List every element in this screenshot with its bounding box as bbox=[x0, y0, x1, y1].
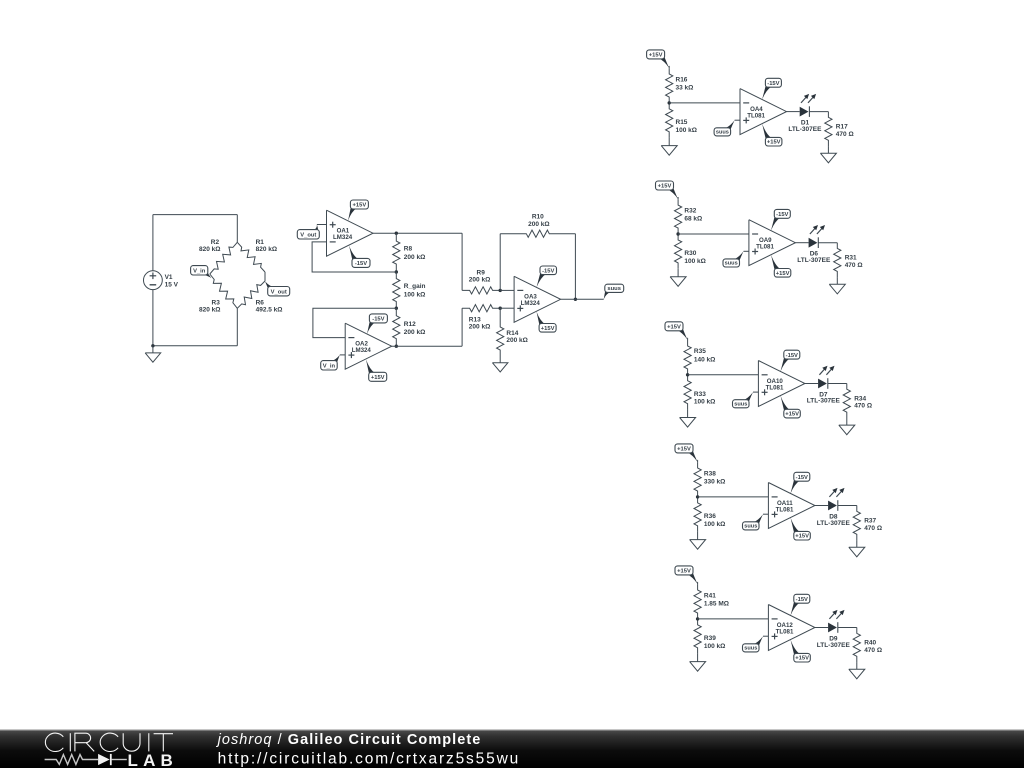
svg-text:LTL-307EE: LTL-307EE bbox=[788, 126, 822, 133]
svg-text:suus: suus bbox=[744, 646, 757, 652]
svg-text:R15: R15 bbox=[676, 119, 688, 126]
svg-text:15 V: 15 V bbox=[165, 282, 179, 289]
svg-text:R34: R34 bbox=[854, 395, 866, 402]
svg-text:-15V: -15V bbox=[355, 261, 367, 267]
svg-text:R14: R14 bbox=[506, 330, 518, 337]
svg-text:+15V: +15V bbox=[667, 325, 681, 331]
svg-text:200 kΩ: 200 kΩ bbox=[469, 276, 490, 283]
svg-text:100 kΩ: 100 kΩ bbox=[676, 127, 697, 134]
svg-text:TL081: TL081 bbox=[756, 244, 774, 251]
svg-text:820 kΩ: 820 kΩ bbox=[199, 246, 220, 253]
svg-text:R31: R31 bbox=[845, 255, 857, 262]
svg-text:33 kΩ: 33 kΩ bbox=[676, 84, 694, 91]
svg-text:R16: R16 bbox=[676, 76, 688, 83]
svg-text:200 kΩ: 200 kΩ bbox=[469, 323, 490, 330]
svg-text:100 kΩ: 100 kΩ bbox=[704, 643, 725, 650]
svg-text:TL081: TL081 bbox=[766, 384, 784, 391]
svg-text:LTL-307EE: LTL-307EE bbox=[807, 398, 841, 405]
svg-text:68 kΩ: 68 kΩ bbox=[684, 216, 702, 223]
svg-text:http://circuitlab.com/crtxarz5: http://circuitlab.com/crtxarz5s55wu bbox=[218, 750, 521, 767]
svg-text:+15V: +15V bbox=[353, 203, 367, 209]
svg-text:LTL-307EE: LTL-307EE bbox=[817, 642, 851, 649]
svg-text:820 kΩ: 820 kΩ bbox=[199, 307, 220, 314]
svg-text:suus: suus bbox=[716, 130, 729, 136]
svg-text:TL081: TL081 bbox=[747, 113, 765, 120]
svg-text:V_in: V_in bbox=[323, 364, 336, 370]
svg-text:R33: R33 bbox=[694, 391, 706, 398]
svg-text:R41: R41 bbox=[704, 592, 716, 599]
svg-text:LM324: LM324 bbox=[352, 347, 372, 354]
svg-text:R37: R37 bbox=[864, 517, 876, 524]
svg-text:R12: R12 bbox=[404, 321, 416, 328]
svg-text:470 Ω: 470 Ω bbox=[845, 262, 863, 269]
svg-text:LTL-307EE: LTL-307EE bbox=[797, 257, 831, 264]
svg-text:R35: R35 bbox=[694, 348, 706, 355]
svg-text:LAB: LAB bbox=[128, 751, 179, 768]
svg-text:200 kΩ: 200 kΩ bbox=[404, 329, 425, 336]
svg-text:1.85 MΩ: 1.85 MΩ bbox=[704, 600, 729, 607]
svg-text:+15V: +15V bbox=[658, 184, 672, 190]
svg-text:LM324: LM324 bbox=[521, 300, 541, 307]
svg-text:R40: R40 bbox=[864, 639, 876, 646]
svg-text:+15V: +15V bbox=[649, 53, 663, 59]
svg-text:LTL-307EE: LTL-307EE bbox=[817, 520, 851, 527]
svg-text:R10: R10 bbox=[532, 213, 544, 220]
svg-text:TL081: TL081 bbox=[776, 506, 794, 513]
svg-text:R8: R8 bbox=[404, 245, 413, 252]
svg-text:140 kΩ: 140 kΩ bbox=[694, 356, 715, 363]
svg-text:+15V: +15V bbox=[776, 271, 790, 277]
svg-text:-15V: -15V bbox=[372, 317, 384, 323]
svg-text:LM324: LM324 bbox=[333, 234, 353, 241]
svg-text:R36: R36 bbox=[704, 513, 716, 520]
svg-text:+15V: +15V bbox=[371, 375, 385, 381]
svg-text:-15V: -15V bbox=[767, 81, 779, 87]
svg-text:100 kΩ: 100 kΩ bbox=[704, 521, 725, 528]
svg-text:100 kΩ: 100 kΩ bbox=[404, 291, 425, 298]
svg-text:200 kΩ: 200 kΩ bbox=[404, 254, 425, 261]
svg-text:V_out: V_out bbox=[271, 290, 287, 296]
svg-text:-15V: -15V bbox=[796, 475, 808, 481]
svg-text:100 kΩ: 100 kΩ bbox=[684, 258, 705, 265]
svg-text:R17: R17 bbox=[836, 123, 848, 130]
svg-text:+15V: +15V bbox=[795, 534, 809, 540]
svg-text:-15V: -15V bbox=[776, 212, 788, 218]
svg-text:492.5 kΩ: 492.5 kΩ bbox=[256, 307, 283, 314]
svg-text:suus: suus bbox=[725, 261, 738, 267]
svg-text:suus: suus bbox=[734, 402, 747, 408]
svg-text:470 Ω: 470 Ω bbox=[864, 525, 882, 532]
svg-text:200 kΩ: 200 kΩ bbox=[506, 337, 527, 344]
svg-text:suus: suus bbox=[744, 524, 757, 530]
svg-text:-15V: -15V bbox=[796, 597, 808, 603]
svg-text:820 kΩ: 820 kΩ bbox=[256, 246, 277, 253]
svg-text:R38: R38 bbox=[704, 470, 716, 477]
svg-text:+15V: +15V bbox=[677, 569, 691, 575]
svg-text:joshroq / Galileo Circuit Comp: joshroq / Galileo Circuit Complete bbox=[216, 732, 482, 748]
svg-text:470 Ω: 470 Ω bbox=[854, 403, 872, 410]
svg-text:R30: R30 bbox=[684, 250, 696, 257]
svg-text:V_in: V_in bbox=[193, 269, 206, 275]
svg-text:470 Ω: 470 Ω bbox=[864, 647, 882, 654]
svg-text:R39: R39 bbox=[704, 635, 716, 642]
svg-text:V1: V1 bbox=[165, 274, 173, 281]
svg-text:+15V: +15V bbox=[795, 656, 809, 662]
svg-text:R_gain: R_gain bbox=[404, 283, 426, 290]
svg-text:-15V: -15V bbox=[542, 268, 554, 274]
svg-text:200 kΩ: 200 kΩ bbox=[528, 221, 549, 228]
svg-text:+15V: +15V bbox=[677, 447, 691, 453]
svg-text:-15V: -15V bbox=[786, 353, 798, 359]
svg-text:100 kΩ: 100 kΩ bbox=[694, 399, 715, 406]
svg-text:R32: R32 bbox=[684, 207, 696, 214]
svg-text:V_out: V_out bbox=[300, 233, 316, 239]
svg-text:suus: suus bbox=[607, 286, 621, 292]
svg-text:+15V: +15V bbox=[785, 412, 799, 418]
svg-text:+15V: +15V bbox=[767, 140, 781, 146]
svg-text:+15V: +15V bbox=[541, 326, 555, 332]
svg-text:330 kΩ: 330 kΩ bbox=[704, 478, 725, 485]
svg-text:TL081: TL081 bbox=[776, 628, 794, 635]
svg-text:470 Ω: 470 Ω bbox=[836, 131, 854, 138]
